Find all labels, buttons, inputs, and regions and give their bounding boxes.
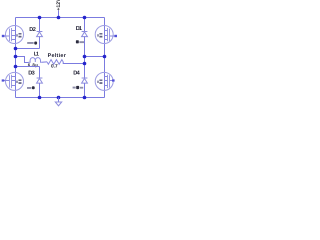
wire D3 anode to rail: [39, 83, 41, 97]
svg-text:Peltier: Peltier: [48, 53, 67, 59]
wire L1 to resistor: [42, 61, 47, 63]
wire +12V stub: [58, 11, 60, 18]
svg-text:+12V: +12V: [56, 0, 62, 11]
junction at +12V stub: [57, 16, 61, 20]
transistor M2 (top-right MOSFET): [95, 26, 117, 44]
label M3: [16, 80, 21, 84]
svg-text:D2: D2: [29, 27, 36, 33]
svg-text:D1: D1: [76, 26, 82, 32]
junction D2 top: [38, 16, 42, 20]
wire D2 cathode column: [39, 18, 41, 32]
transistor M4 (bottom-right MOSFET): [95, 72, 114, 90]
svg-text:L1: L1: [34, 51, 39, 57]
transistor M1 (top-left MOSFET): [2, 26, 24, 44]
wire resistor to right node: [63, 62, 84, 64]
diode D1: [82, 32, 88, 37]
junction D3 bottom: [38, 96, 42, 100]
svg-text:0.7: 0.7: [51, 64, 58, 70]
junction ground tap: [57, 96, 61, 100]
svg-text:D3: D3: [28, 71, 35, 77]
junction left node D3: [14, 65, 18, 69]
junction left node D2: [14, 47, 18, 51]
diode D3: [37, 78, 43, 83]
wire D2 anode lead: [39, 37, 41, 49]
wire left node to D3: [16, 66, 40, 68]
wire left node tap: [16, 57, 29, 63]
junction D1 top: [83, 16, 87, 20]
diode D4: [82, 78, 88, 83]
label D1 model: [76, 40, 84, 43]
wire top +12V rail: [16, 17, 105, 19]
diode D2: [37, 32, 43, 37]
ground: [55, 102, 61, 106]
label M4: [97, 80, 102, 84]
wire D4 anode to rail: [84, 83, 86, 97]
junction right node resistor tap: [83, 62, 87, 66]
wire right node cross to MOSFET column: [85, 56, 105, 58]
transistor M3 (bottom-left MOSFET): [2, 72, 24, 90]
wire right MOSFET column: [104, 18, 106, 98]
label D4 model: [73, 86, 84, 89]
resistor Peltier 0.7: [47, 60, 63, 65]
junction right node right end: [103, 55, 107, 59]
wire ground stub: [58, 98, 60, 103]
wire D3 cathode lead: [39, 67, 41, 79]
inductor L1: [29, 58, 42, 63]
junction right node left end: [83, 55, 87, 59]
wire D1 cathode column: [84, 18, 86, 32]
svg-text:D4: D4: [73, 71, 80, 77]
junction left node tap: [14, 55, 18, 59]
label D3 model: [27, 86, 35, 89]
wire D2 anode to left node: [16, 48, 40, 50]
wire D1 anode column down through node: [84, 37, 86, 78]
wire left MOSFET column: [15, 18, 17, 98]
junction D4 bottom: [83, 96, 87, 100]
label M1: [16, 33, 21, 37]
label M2: [97, 33, 102, 37]
label D2 model: [27, 42, 37, 45]
wire bottom ground rail: [16, 97, 105, 99]
